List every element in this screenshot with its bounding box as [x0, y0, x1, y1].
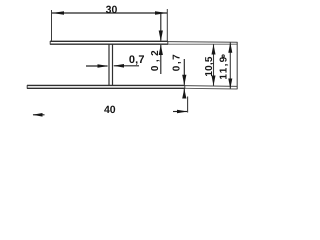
- dimension 0,7 bottom flange: upper arrow pointing down at flange top: [183, 59, 185, 85]
- dimension 0,7 web: left arrow pointing right at web: [86, 65, 108, 67]
- dimension 10,5: bottom arrowhead (down): [212, 76, 216, 86]
- top flange inner line: [50, 43, 168, 45]
- svg-text:0,7: 0,7: [172, 53, 183, 71]
- dimension 10,5: top arrowhead (up): [212, 44, 216, 54]
- dimension 30: left arrowhead: [52, 11, 64, 15]
- extension line: top surface extended right: [168, 41, 238, 44]
- dimension 11,9: top arrowhead (up): [228, 42, 232, 52]
- bottom flange right end cap: [184, 85, 186, 88]
- bottom flange inner (bottom) line: [27, 87, 185, 89]
- top flange right end cap: [167, 41, 169, 45]
- dimension 0,2: lower arrow pointing up at flange bottom: [160, 45, 162, 74]
- web right line: [112, 44, 114, 86]
- svg-text:40: 40: [104, 104, 116, 116]
- dimension 0,7 bottom flange: lower arrow pointing up at flange bottom: [183, 89, 185, 99]
- svg-text:11,9: 11,9: [219, 55, 230, 79]
- dimension 40: left arrowhead fragment: [33, 114, 45, 116]
- dimension 30: right extension line: [166, 9, 168, 41]
- top flange outer line: [50, 40, 168, 42]
- web left line: [108, 44, 110, 86]
- dimension 40: right arrow pointing right at extension line: [173, 111, 187, 113]
- dimension 11,9: degree-like tick after value: [222, 55, 224, 57]
- right frame vertical joining extension lines: [236, 42, 238, 89]
- svg-text:0,7: 0,7: [129, 54, 145, 66]
- dimension 30: left extension line: [51, 10, 53, 41]
- dimension 40: right extension line: [187, 97, 189, 113]
- bottom flange outer (top) line: [27, 84, 185, 86]
- svg-text:0,2: 0,2: [150, 47, 161, 71]
- dimension 30: right arrowhead: [155, 11, 167, 15]
- extension line: top inner surface extended right: [168, 43, 238, 45]
- svg-text:30: 30: [106, 4, 118, 16]
- extension line: bottom inner surface extended right: [185, 87, 238, 90]
- dimension 0,7 web: right arrow pointing left at web: [114, 65, 139, 67]
- svg-text:10,5: 10,5: [204, 56, 215, 77]
- top flange left end cap: [49, 41, 51, 45]
- dimension 11,9: bottom arrowhead (down): [228, 79, 232, 89]
- dimension 11,9: dimension line: [229, 42, 231, 89]
- extension line: bottom outer surface extended right: [185, 85, 238, 88]
- dimension 0,2: upper arrow pointing down at flange top: [160, 14, 162, 41]
- dimension 30: dimension line: [52, 12, 167, 14]
- dimension 10,5: dimension line: [213, 44, 215, 86]
- bottom flange left end cap: [26, 85, 28, 88]
